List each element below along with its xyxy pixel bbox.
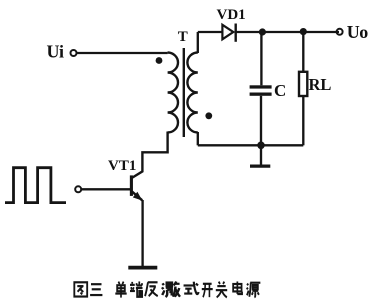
svg-text:C: C: [274, 81, 286, 100]
svg-text:Ui: Ui: [47, 42, 64, 62]
svg-text:Uo: Uo: [347, 22, 368, 42]
svg-text:VD1: VD1: [217, 7, 246, 23]
svg-text:RL: RL: [309, 75, 332, 94]
svg-text:T: T: [178, 29, 188, 45]
svg-text:VT1: VT1: [108, 158, 136, 174]
